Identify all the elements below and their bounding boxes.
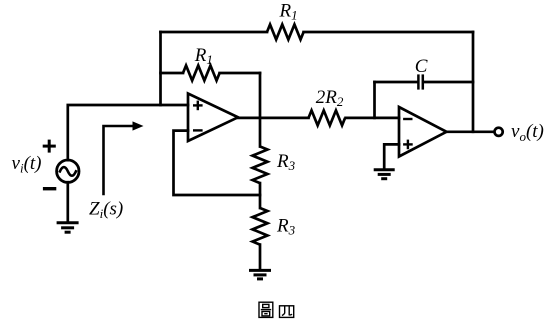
source plus sign: [43, 140, 56, 153]
resistor 2R2: [309, 110, 346, 125]
ground (below lower R3): [249, 270, 271, 279]
wire: capacitor left lead: [375, 81, 418, 84]
resistor R1 (feedback): [183, 66, 220, 81]
capacitor C: [418, 74, 422, 89]
svg-text:vo(t): vo(t): [511, 121, 544, 144]
op-amp U2 triangle: [399, 107, 447, 157]
svg-text:Zi(s): Zi(s): [89, 199, 123, 222]
wire: capacitor right lead to right vertical: [424, 81, 473, 84]
wire: feedback R1 right segment to node vertical: [220, 72, 260, 75]
source minus sign: [43, 187, 56, 190]
resistor R1 (top): [267, 25, 304, 40]
terminal vo: [495, 128, 503, 136]
wire: U1 inverting input loop to R3 junction: [174, 131, 261, 195]
wire: top R1 left segment: [161, 31, 268, 34]
wire: source to ground: [66, 182, 69, 221]
U2 plus input marking: [403, 140, 413, 150]
wire: feedback R1 left segment: [161, 72, 184, 75]
wire: lower R3 to ground: [259, 245, 262, 270]
U1 plus input marking: [193, 101, 203, 111]
svg-text:vi(t): vi(t): [12, 153, 42, 176]
wire: main input from source to op-amp U1 + input: [68, 105, 188, 160]
wire: capacitor tap vertical: [373, 82, 376, 118]
caption 四 drawn strokes: [280, 306, 294, 318]
U2 minus input marking: [403, 118, 412, 120]
wire: left node vertical (input node): [159, 32, 162, 105]
source V1 circle: [57, 160, 79, 182]
svg-text:C: C: [415, 56, 428, 77]
caption 圖 (figure) drawn strokes: [259, 302, 273, 317]
wire: U1 output to 2R2: [238, 117, 309, 120]
impedance arrow Zi: [104, 126, 134, 194]
wire: U2 output to terminal: [447, 130, 495, 133]
source V1 sine: [60, 167, 76, 176]
resistor R3 (lower): [253, 208, 268, 245]
wire: vertical from feedback R1 down through U1 output node to R3: [259, 73, 262, 147]
wire: U2 non-inverting input to ground: [384, 144, 399, 168]
wire: between the two R3 resistors: [259, 183, 262, 208]
op-amp U1 triangle: [188, 94, 238, 142]
ground (source): [57, 223, 79, 232]
wire: right vertical from top R1 down to output: [472, 32, 475, 132]
wire: top R1 right segment: [304, 31, 473, 34]
U1 minus input marking: [193, 129, 203, 131]
ground (U2 non-inverting input): [374, 170, 395, 179]
resistor R3 (upper): [253, 147, 268, 184]
wire: 2R2 to U2 inverting input: [346, 117, 399, 120]
